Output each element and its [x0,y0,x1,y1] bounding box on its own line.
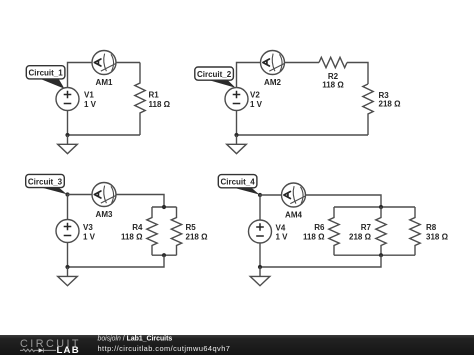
svg-text:R7: R7 [361,223,372,232]
junction dot [234,133,238,137]
wire AM2 to R2 [285,62,320,64]
label Circuit_2 [195,67,234,80]
svg-text:R5: R5 [186,223,197,232]
voltage source V2 [225,88,248,111]
ground [58,135,78,154]
svg-text:218 Ω: 218 Ω [349,233,372,242]
junction dot [379,205,383,209]
wire split to bottom C4 [260,255,381,267]
svg-text:218 Ω: 218 Ω [186,232,209,241]
ground [250,267,270,286]
junction dot node C3 [65,192,69,196]
label tail Circuit_3 [37,186,67,194]
svg-text:http://circuitlab.com/cutjmwu6: http://circuitlab.com/cutjmwu64qvh7 [98,344,231,353]
svg-text:1 V: 1 V [250,100,263,109]
wire AM3 to split node [116,195,164,208]
svg-text:V2: V2 [250,91,260,100]
junction dot [65,265,69,269]
wire V3 top to AM3 [68,195,93,220]
wire bottom rail C3 [152,254,177,256]
svg-text:LAB: LAB [57,345,80,355]
svg-text:Circuit_3: Circuit_3 [28,177,63,186]
wire R2 to R3 [347,63,368,85]
junction dot [258,265,262,269]
voltage source V1 [56,88,79,111]
svg-text:318 Ω: 318 Ω [426,233,449,242]
value label R6 [303,223,325,241]
svg-text:1 V: 1 V [84,100,97,109]
label tail Circuit_4 [230,187,260,195]
label Circuit_3 [26,174,65,187]
svg-text:V3: V3 [83,223,93,232]
resistor R8 [410,207,420,255]
label Circuit_1 [26,66,65,79]
ammeter AM3 [92,183,116,207]
value label R1 [149,91,171,109]
ammeter AM2 [261,51,285,75]
svg-text:R6: R6 [314,223,325,232]
svg-text:R1: R1 [149,91,160,100]
resistor R2 [319,57,347,67]
wire top rail C4 [334,206,415,208]
svg-text:1 V: 1 V [83,232,96,241]
svg-text:AM4: AM4 [285,211,302,220]
junction dot [379,253,383,257]
wire V1 top to AM1 [68,63,93,88]
svg-text:V1: V1 [84,91,94,100]
label tail Circuit_1 [38,78,65,89]
svg-text:Circuit_1: Circuit_1 [28,69,63,78]
svg-text:R4: R4 [132,223,143,232]
voltage source V3 [56,220,79,243]
resistor R6 [329,207,339,255]
ground [227,135,247,154]
resistor R5 [171,207,181,255]
value label V1 [84,91,97,109]
junction dot [162,253,166,257]
resistor R7 [376,207,386,255]
svg-text:118 Ω: 118 Ω [121,232,143,241]
svg-text:AM3: AM3 [96,210,113,219]
svg-text:1 V: 1 V [276,233,289,242]
wire V2 top to AM2 [237,63,261,88]
voltage source V4 [249,220,272,243]
label Circuit_4 [218,175,257,188]
svg-text:118 Ω: 118 Ω [149,100,171,109]
junction dot [162,205,166,209]
svg-text:Circuit_2: Circuit_2 [197,70,232,79]
wire split to bottom C3 [68,255,165,267]
wire V4 top to AM4 [260,195,282,220]
svg-text:V4: V4 [276,224,286,233]
value label R7 [349,223,372,241]
ammeter AM4 [282,183,306,207]
wire AM1 to R1 [116,62,140,64]
value label R5 [186,223,209,242]
value label R2 [322,72,344,89]
value label R8 [426,223,449,241]
label tail Circuit_2 [205,79,236,88]
resistor R4 [147,207,157,255]
wire bottom C1 [68,134,141,136]
junction dot [65,133,69,137]
wire V2 bottom [236,111,238,136]
svg-text:Circuit_4: Circuit_4 [220,178,255,187]
junction dot node C4 [258,193,262,197]
wire bottom C2 [237,134,369,136]
svg-text:218 Ω: 218 Ω [379,99,402,108]
svg-text:118 Ω: 118 Ω [322,80,344,89]
resistor R3 [363,84,373,135]
wire V3 bottom [67,243,69,268]
value label R4 [121,223,143,242]
wire V1 bottom [67,111,69,136]
value label V3 [83,223,96,242]
svg-text:boisjoln / Lab1_Circuits: boisjoln / Lab1_Circuits [98,336,173,343]
wire V4 bottom [259,243,261,267]
svg-text:R8: R8 [426,223,437,232]
svg-text:118 Ω: 118 Ω [303,233,325,242]
wire AM4 to split node [306,195,382,207]
resistor R1 [135,63,145,136]
value label V2 [250,91,263,109]
svg-text:AM1: AM1 [96,78,113,87]
ammeter AM1 [92,51,116,75]
logo squiggle resistor-diode [20,348,56,352]
wire bottom rail C4 [334,254,415,256]
svg-text:AM2: AM2 [264,78,281,87]
wire top rail C3 [152,206,177,208]
value label R3 [379,91,402,108]
value label V4 [276,224,289,242]
ground [58,267,78,286]
